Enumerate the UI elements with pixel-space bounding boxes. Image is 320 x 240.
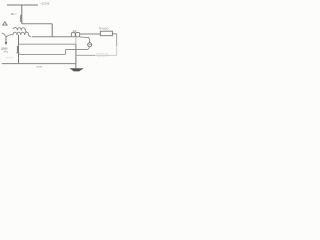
wire resistor out bbox=[112, 33, 116, 35]
inductor L2 (vertical coil bumps on left of tap wire) bbox=[17, 46, 18, 53]
wire A secondary output to plug bbox=[32, 36, 72, 38]
wire E lower tap bbox=[19, 53, 66, 55]
wire right return horizontal faint part bbox=[95, 54, 117, 56]
svg-text:оаллрс нт: оаллрс нт bbox=[97, 55, 109, 58]
wire hook from secondary left end down to arrow bbox=[6, 35, 13, 37]
wire C to meter bottom bbox=[65, 47, 89, 50]
transformer T1 secondary (bottom horizontal coil) bbox=[13, 32, 31, 37]
svg-text:тdroels: тdroels bbox=[5, 57, 13, 60]
svg-text:Вк.I: Вк.I bbox=[11, 12, 16, 16]
svg-text:з.в.м.: з.в.м. bbox=[36, 65, 43, 68]
ground symbol (flat filled triangle) bbox=[70, 68, 84, 71]
wire vertical drop from top line bbox=[21, 5, 23, 24]
wire small left curl bbox=[2, 33, 6, 37]
meter needle dash bbox=[89, 44, 91, 46]
svg-text:R = 10 Ω: R = 10 Ω bbox=[99, 27, 108, 31]
wire vertical at x=52 down to middle bus bbox=[51, 24, 53, 37]
wire tap vertical from secondary down to bottom bus bbox=[18, 35, 20, 64]
plug X1 pin 1 bbox=[71, 33, 75, 37]
wire horizontal from drop to right corner bbox=[22, 23, 52, 25]
triangle delta symbol bbox=[3, 22, 7, 25]
svg-text:кГц: кГц bbox=[4, 49, 9, 53]
meter P1 (circle) bbox=[88, 43, 92, 47]
wire D plug to meter top bbox=[80, 37, 90, 43]
transformer T1 primary (top horizontal coil) bbox=[13, 28, 27, 33]
plug X1 pin 2 bbox=[76, 33, 80, 37]
inductor L1 (vertical coil bumps on left of drop wire) bbox=[21, 15, 22, 22]
resistor R1 (box) bbox=[100, 31, 112, 36]
wire right return vertical lower faint bbox=[116, 46, 118, 55]
wire bottom bus bbox=[2, 63, 76, 65]
wire vertical riser joining E to C bbox=[64, 50, 66, 55]
wire A2 plug to resistor bbox=[80, 33, 101, 35]
svg-text:ШР: ШР bbox=[73, 30, 77, 33]
wire right return vertical bbox=[116, 34, 118, 46]
arrowhead (down) bbox=[5, 42, 8, 45]
wire right return horizontal to ground node bbox=[76, 54, 95, 56]
wire B tap to ground drop bbox=[19, 43, 76, 45]
svg-text:~220 B: ~220 B bbox=[40, 2, 50, 6]
wire ground drop vertical upper faint bbox=[75, 37, 77, 44]
wire top supply line bbox=[7, 4, 38, 6]
wire arrow stem bbox=[5, 37, 7, 43]
wire ground drop vertical bbox=[75, 44, 77, 68]
junction tick at coil L2 bottom bbox=[16, 52, 19, 54]
